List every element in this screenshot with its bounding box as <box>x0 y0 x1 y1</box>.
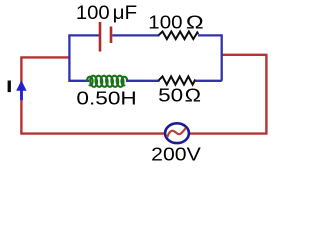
wire: blue top branch right segment (resistor R1 to right vertical) <box>198 34 222 36</box>
wire: blue top branch middle segment (capacitor to resistor R1) <box>112 34 159 36</box>
wire: blue bottom branch left segment (corner to inductor) <box>68 80 89 82</box>
svg-text:100: 100 <box>76 3 110 24</box>
wire: blue bottom branch right segment (resistor R2 to right vertical) <box>196 80 222 82</box>
wire: blue bottom branch middle segment (inductor to resistor R2) <box>126 80 160 82</box>
svg-text:μF: μF <box>113 3 138 24</box>
wire: outer red loop (left tap, left side, bottom side, right side, right tap) <box>21 55 266 134</box>
inductor L1 0.50H green coil <box>87 75 127 87</box>
svg-text:Ω: Ω <box>185 85 202 106</box>
current arrow I (blue, on left red wire, pointing up) <box>16 80 26 100</box>
capacitor C1 100uF left plate <box>99 22 102 52</box>
AC source V1 circle <box>165 123 189 143</box>
wire: blue right vertical of inner mesh <box>221 34 223 81</box>
svg-text:0.50H: 0.50H <box>76 88 136 109</box>
svg-text:50: 50 <box>158 85 183 106</box>
svg-text:200V: 200V <box>151 144 201 165</box>
capacitor C1 100uF right plate <box>110 27 113 44</box>
label I <box>8 81 11 93</box>
resistor R2 50 ohm zigzag <box>159 76 196 84</box>
svg-text:100: 100 <box>148 11 182 32</box>
AC source sine squiggle <box>167 128 186 137</box>
svg-text:Ω: Ω <box>186 11 204 32</box>
resistor R1 100 ohm zigzag <box>159 32 199 40</box>
wire: blue left vertical of inner mesh <box>68 35 70 80</box>
wire: blue top branch left segment (corner to capacitor) <box>68 34 99 36</box>
